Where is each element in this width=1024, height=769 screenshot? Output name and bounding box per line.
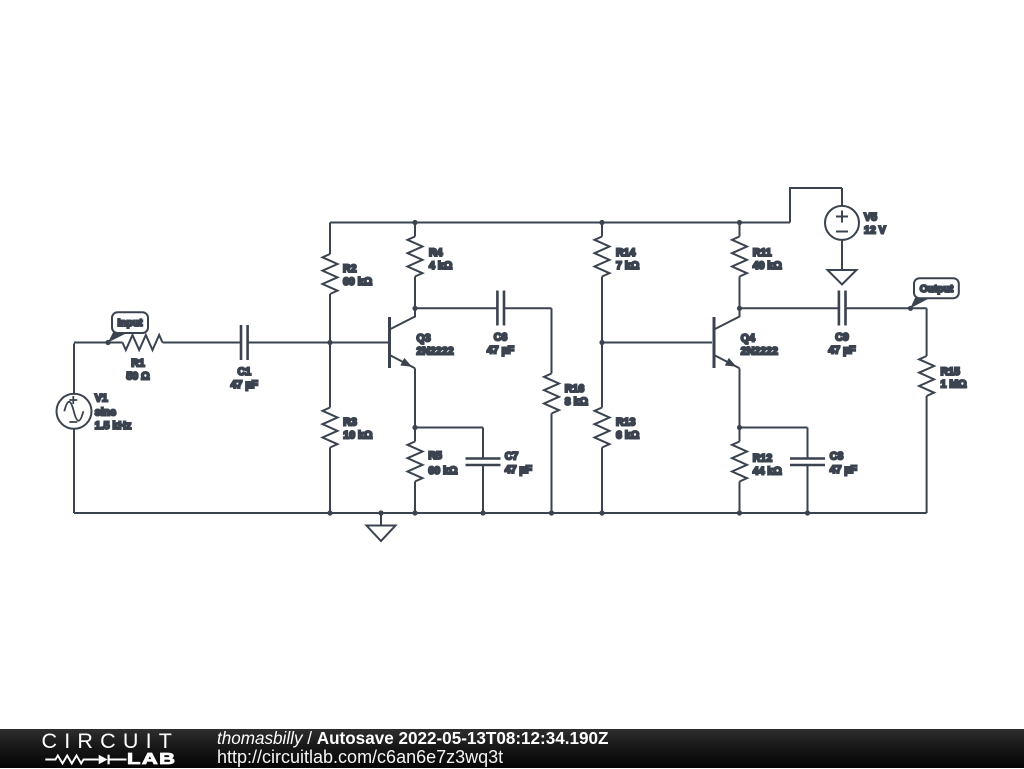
capacitor C7 [466,451,533,477]
svg-text:C7: C7 [505,451,519,463]
wire [329,343,331,408]
svg-text:R1: R1 [131,358,145,370]
voltage source V5 [825,206,886,240]
svg-text:2N2222: 2N2222 [417,345,454,357]
wire [482,428,484,458]
wire [807,428,809,458]
wire [739,223,741,237]
node junction (602,342.5) [599,340,604,345]
node junction (108,342.5) [105,340,110,345]
wire [551,414,553,514]
resistor R16 [544,374,589,414]
svg-text:60 kΩ: 60 kΩ [428,465,458,477]
node junction (483,513) [480,510,485,515]
svg-text:sine: sine [95,407,116,419]
wire [602,342,712,344]
wire [74,512,927,514]
svg-text:40 kΩ: 40 kΩ [753,260,783,272]
svg-text:Input: Input [118,318,143,329]
capacitor C6 [487,291,515,357]
wire [482,466,484,513]
resistor R1 [123,335,163,383]
resistor R13 [595,408,640,448]
CircuitLab logo resistor-diode glyph [42,752,132,768]
svg-text:R14: R14 [616,247,636,259]
svg-text:R16: R16 [565,383,585,395]
wire [740,427,808,429]
svg-text:2N2222: 2N2222 [741,345,778,357]
wire [739,428,741,442]
svg-text:Q3: Q3 [417,332,431,344]
wire [163,342,241,344]
svg-text:R4: R4 [429,247,443,259]
node junction (739.5,427.5) [737,425,742,430]
wire [73,344,75,394]
node junction (381,513) [378,510,383,515]
node Input flag [108,312,148,342]
svg-text:47 µF: 47 µF [505,464,533,476]
resistor R4 [408,237,453,277]
wire [807,466,809,513]
node junction (415,308.3) [412,306,417,311]
wire [249,342,389,344]
svg-text:47 µF: 47 µF [828,345,856,357]
wire [841,188,843,206]
wire [73,429,75,513]
svg-text:10 kΩ: 10 kΩ [343,429,373,441]
svg-text:7 kΩ: 7 kΩ [616,260,640,272]
node junction (739.5,308.3) [737,306,742,311]
svg-text:C6: C6 [494,332,508,344]
svg-text:4 kΩ: 4 kΩ [429,260,453,272]
svg-text:6 kΩ: 6 kΩ [616,429,640,441]
node junction (415,513) [412,510,417,515]
wire [551,308,553,373]
wire [414,277,416,309]
svg-text:R3: R3 [343,417,357,429]
wire [601,277,603,343]
svg-text:47 µF: 47 µF [487,345,515,357]
wire [329,448,331,514]
wire [414,428,416,442]
resistor R11 [732,237,782,277]
wire [739,482,741,514]
wire [846,307,926,309]
node junction (330,513) [327,510,332,515]
svg-text:8 kΩ: 8 kΩ [565,396,589,408]
node junction (330,342.5) [327,340,332,345]
svg-text:44 kΩ: 44 kΩ [753,465,783,477]
resistor R5 [408,442,459,482]
wire [841,240,843,270]
CircuitLab logo word LAB [127,751,177,769]
capacitor C1 [231,325,259,391]
svg-text:R2: R2 [343,263,357,275]
ground [367,513,396,541]
wire [415,307,497,309]
node junction (807.5,513) [805,510,810,515]
transistor Q3 [390,308,454,368]
resistor R14 [595,237,640,277]
voltage source V1 [57,393,132,432]
wire [601,343,603,408]
svg-text:1 MΩ: 1 MΩ [941,379,968,391]
node junction (739.5,222.5) [737,220,742,225]
capacitor C9 [828,291,856,357]
svg-text:C1: C1 [238,366,252,378]
node junction (602,222.5) [599,220,604,225]
wire [790,188,842,223]
svg-text:12 V: 12 V [864,225,886,237]
wire [601,223,603,237]
svg-text:R12: R12 [753,453,773,465]
svg-text:R13: R13 [616,417,636,429]
svg-text:R15: R15 [941,366,961,378]
wire [330,222,790,224]
wire [926,308,928,356]
ground (V5) [828,270,857,285]
node junction (551.5,513) [549,510,554,515]
svg-text:60 kΩ: 60 kΩ [343,276,373,288]
resistor R3 [323,408,373,448]
wire [74,342,123,344]
resistor R12 [732,442,782,482]
node Output flag [910,278,959,308]
wire [601,448,603,514]
svg-text:R5: R5 [428,450,442,462]
svg-text:C9: C9 [835,332,849,344]
svg-text:47 µF: 47 µF [231,379,259,391]
wire [329,223,331,255]
wire [414,482,416,514]
svg-text:47 µF: 47 µF [830,464,858,476]
svg-text:V5: V5 [864,211,877,223]
node junction (415,427.5) [412,425,417,430]
wire [414,223,416,237]
svg-text:C8: C8 [830,451,844,463]
node junction (910.5,308.3) [908,306,913,311]
node junction (602,513) [599,510,604,515]
resistor R2 [323,254,373,294]
capacitor C8 [790,451,858,477]
wire [926,396,928,513]
CircuitLab logo word CIRCUIT [42,729,180,754]
wire [329,294,331,343]
node junction (415,222.5) [412,220,417,225]
svg-text:Q4: Q4 [741,332,755,344]
svg-text:1.5 kHz: 1.5 kHz [95,420,132,432]
wire [415,427,483,429]
transistor Q4 [714,308,778,368]
wire [739,368,741,427]
svg-text:V1: V1 [95,393,108,405]
wire [414,368,416,427]
wire [740,307,839,309]
wire [504,307,552,309]
svg-text:R11: R11 [753,247,772,259]
svg-text:Output: Output [920,284,954,295]
resistor R15 [919,356,967,396]
wire [739,277,741,309]
svg-text:50 Ω: 50 Ω [126,371,150,383]
node junction (739.5,513) [737,510,742,515]
